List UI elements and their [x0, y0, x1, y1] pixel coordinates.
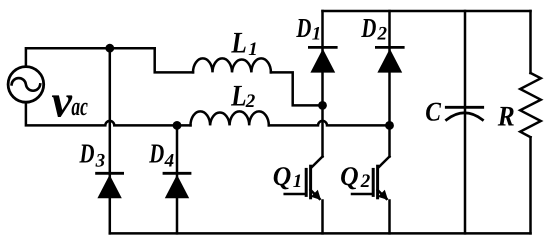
label Q1	[273, 161, 303, 192]
svg-text:4: 4	[164, 151, 175, 172]
inductor L2	[191, 111, 269, 125]
diode D3	[97, 173, 123, 198]
wire capacitor branch bottom lead	[464, 110, 467, 234]
inductor L1	[193, 58, 271, 72]
node A junction dot	[105, 44, 114, 53]
label Q2	[340, 161, 371, 192]
svg-text:D: D	[148, 138, 164, 169]
svg-text:D: D	[79, 138, 95, 169]
wire top rail	[323, 10, 531, 13]
diode D1	[309, 47, 336, 72]
svg-text:D: D	[361, 12, 377, 43]
wire resistor branch top lead	[529, 11, 532, 73]
wire resistor branch bottom lead	[529, 137, 532, 233]
wire from L1 down to node B	[271, 72, 323, 105]
svg-text:R: R	[497, 102, 515, 133]
transistor Q1 (IGBT)	[285, 157, 323, 201]
label D2	[361, 12, 388, 45]
wire capacitor branch top lead	[464, 11, 467, 106]
node C junction dot (D4 branch tap)	[173, 121, 182, 130]
ac source Vac	[8, 67, 44, 103]
label L2	[230, 80, 255, 113]
svg-text:Q: Q	[273, 161, 292, 191]
node D junction dot (L2 to D2/Q2 branch)	[385, 121, 394, 130]
label D3	[79, 138, 105, 172]
wire branch2 top: from top rail down through D2 to node D	[388, 11, 391, 125]
svg-text:1: 1	[312, 24, 322, 45]
svg-text:2: 2	[377, 24, 388, 45]
diode D4	[164, 173, 190, 198]
wire step down from node A row to L1 row	[155, 48, 193, 72]
svg-text:L: L	[230, 80, 246, 113]
node B junction dot (L1 to D1/Q1 branch)	[318, 101, 327, 110]
svg-text:1: 1	[248, 39, 257, 60]
label D1	[296, 12, 322, 45]
label C	[425, 97, 442, 127]
svg-text:2: 2	[245, 91, 256, 112]
resistor R	[520, 73, 541, 137]
svg-text:v: v	[52, 76, 73, 127]
label D4	[148, 138, 174, 172]
diode D2	[376, 47, 403, 72]
label L1	[231, 27, 258, 60]
wire from node D down to Q2 collector	[388, 125, 391, 156]
svg-text:L: L	[231, 27, 247, 60]
svg-text:3: 3	[95, 151, 106, 172]
svg-text:C: C	[425, 97, 442, 127]
svg-text:Q: Q	[340, 161, 359, 191]
wire Q1 emitter to bottom rail	[321, 201, 324, 234]
wire branch1 top: from top rail down through D1 to node B	[321, 11, 324, 105]
wire Q2 emitter to bottom rail	[388, 201, 391, 234]
wire D3 branch vertical	[109, 48, 112, 233]
capacitor C	[446, 107, 482, 120]
wire D4 branch vertical	[176, 125, 179, 233]
label vac	[52, 76, 89, 127]
wire from source top to node A	[26, 48, 155, 66]
label R	[497, 102, 515, 133]
wire from L2 to node D with hop over Q1 branch	[269, 121, 390, 126]
wire from source bottom along L2 row with hop over D3 branch	[26, 102, 191, 125]
svg-text:ac: ac	[71, 92, 88, 121]
wire from node B down to Q1 collector	[321, 105, 324, 156]
svg-text:1: 1	[293, 171, 303, 192]
transistor Q2 (IGBT)	[352, 157, 390, 201]
svg-text:D: D	[296, 12, 312, 43]
wire bottom rail	[110, 232, 531, 235]
svg-text:2: 2	[360, 171, 371, 192]
